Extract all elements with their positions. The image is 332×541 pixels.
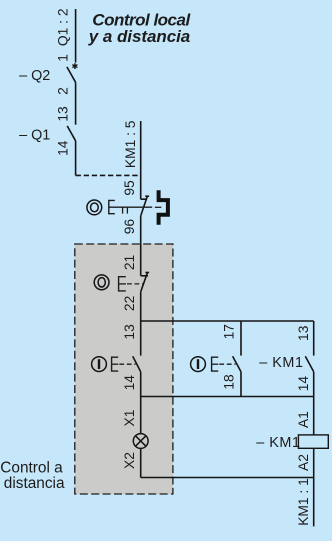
svg-text:KM1 : 1: KM1 : 1 (296, 478, 311, 526)
svg-text:13: 13 (296, 325, 311, 341)
svg-text:14: 14 (122, 375, 137, 391)
svg-text:A2: A2 (296, 454, 311, 471)
svg-text:1: 1 (55, 54, 70, 62)
svg-text:y a distancia: y a distancia (88, 27, 190, 46)
svg-text:distancia: distancia (4, 475, 65, 492)
svg-text:Q1 : 2: Q1 : 2 (55, 9, 70, 47)
svg-text:KM1 : 5: KM1 : 5 (123, 120, 138, 168)
svg-text:2: 2 (55, 87, 70, 95)
svg-text:13: 13 (55, 106, 70, 122)
svg-text:– Q2: – Q2 (19, 68, 50, 84)
svg-text:21: 21 (122, 255, 137, 270)
svg-text:14: 14 (55, 140, 70, 156)
svg-text:22: 22 (122, 296, 137, 311)
svg-text:18: 18 (222, 374, 237, 390)
svg-text:95: 95 (122, 180, 137, 196)
svg-text:A1: A1 (296, 411, 311, 428)
svg-text:17: 17 (222, 324, 237, 339)
svg-text:96: 96 (122, 219, 137, 235)
svg-text:– Q1: – Q1 (19, 128, 50, 144)
svg-text:13: 13 (122, 324, 137, 340)
svg-text:X2: X2 (122, 452, 137, 469)
svg-text:X1: X1 (122, 410, 137, 427)
svg-text:14: 14 (296, 376, 311, 392)
svg-text:– KM1: – KM1 (259, 355, 303, 371)
svg-text:– KM1: – KM1 (256, 435, 300, 451)
